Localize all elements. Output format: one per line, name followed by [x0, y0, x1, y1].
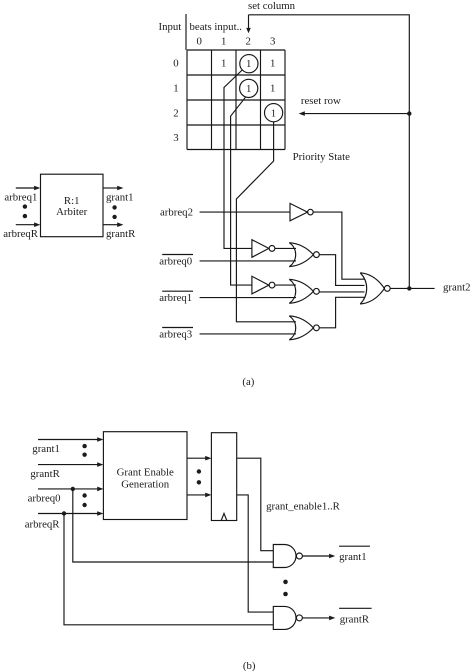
- svg-text:1: 1: [270, 82, 275, 94]
- svg-text:3: 3: [173, 132, 178, 144]
- svg-text:2: 2: [245, 35, 250, 47]
- svg-text:0: 0: [173, 58, 178, 70]
- wire: grant1 out of arbiter: [103, 187, 118, 189]
- dots: between grant1 and grantR: [82, 444, 86, 448]
- circle around cell (2,3): [265, 104, 283, 122]
- wire: grant2 output: [390, 287, 434, 289]
- wire: from circle (1,2) down to inverter U3: [231, 97, 252, 285]
- svg-text:1: 1: [173, 83, 178, 95]
- wire: U2 output into NOR U4: [275, 247, 296, 249]
- svg-text:set column: set column: [248, 0, 296, 12]
- svg-text:1: 1: [270, 57, 275, 69]
- wire: U6 output to 4-input NOR: [319, 297, 364, 328]
- svg-text:reset row: reset row: [301, 95, 341, 107]
- wire: U5 output to 4-input NOR: [319, 291, 364, 293]
- wire: arbreq0 to NOR U4: [200, 260, 296, 262]
- junction: grant2 to feedback: [407, 286, 411, 290]
- svg-text:1: 1: [246, 58, 251, 70]
- register block: [211, 433, 236, 521]
- wire: from circle (0,2) down to inverter U2: [224, 70, 252, 248]
- wire: arbreq0 feedback to NAND U8: [73, 489, 273, 562]
- svg-text:arbreq0: arbreq0: [159, 256, 192, 268]
- NAND gate U8 (grant1): [273, 545, 302, 568]
- inverter U2 (matrix bit into U4): [252, 240, 269, 258]
- NOR gate U6 (arbreq3 row): [289, 316, 319, 340]
- svg-text:grantR: grantR: [106, 228, 136, 240]
- wire: U4 output to 4-input NOR: [319, 255, 364, 286]
- svg-text:1: 1: [221, 35, 226, 47]
- svg-text:Input: Input: [159, 21, 182, 33]
- wire: register to NAND U9: [237, 495, 274, 612]
- wire: U8 output arrow: [302, 555, 330, 557]
- wire: arbreq2 to inverter U1: [200, 211, 290, 213]
- svg-text:grant1: grant1: [32, 443, 60, 455]
- wire: header separator line: [185, 14, 187, 50]
- dots: between NAND gates: [283, 580, 288, 585]
- dots: between arbreq0 and arbreqR: [82, 493, 86, 497]
- svg-text:0: 0: [196, 35, 201, 47]
- wire: arbreqR into arbiter: [16, 224, 35, 226]
- 4-input NOR gate U7 (grant2): [360, 273, 390, 304]
- svg-text:(a): (a): [242, 376, 254, 388]
- wire: arbreq0 into grant enable generation: [38, 488, 98, 490]
- wire: U9 output arrow: [302, 617, 330, 619]
- wire: GEG to register (top): [187, 457, 206, 459]
- matrix cell values 1: [221, 57, 276, 119]
- junction: reset row on feedback vertical: [407, 111, 411, 115]
- svg-text:grant_enable1..R: grant_enable1..R: [266, 501, 341, 513]
- wire: set column arrow into column 2: [248, 15, 250, 29]
- svg-text:3: 3: [270, 35, 275, 47]
- matrix grid: priority state matrix: [187, 50, 285, 150]
- svg-text:1: 1: [221, 57, 226, 69]
- wire: U3 output into NOR U5: [275, 284, 296, 286]
- svg-text:arbreq0: arbreq0: [28, 493, 61, 505]
- svg-text:2: 2: [173, 108, 178, 120]
- svg-text:1: 1: [246, 83, 251, 95]
- svg-text:Generation: Generation: [121, 478, 170, 490]
- wire: arbreq3 to NOR U6: [200, 333, 296, 335]
- R:1 arbiter block: [41, 174, 104, 237]
- wire: arbreq1 into arbiter: [16, 187, 35, 189]
- svg-text:grant1: grant1: [106, 192, 134, 204]
- inverter U1 (arbreq2): [290, 203, 308, 220]
- svg-text:1: 1: [271, 107, 276, 119]
- wire: register to NAND U8: [237, 458, 274, 551]
- svg-text:arbreq1: arbreq1: [159, 292, 192, 304]
- svg-text:grantR: grantR: [340, 613, 370, 625]
- wire: set column feedback (top horizontal + right vertical from grant2): [249, 15, 410, 289]
- svg-text:arbreqR: arbreqR: [25, 519, 61, 531]
- wire: U1 output to 4-input NOR: [313, 212, 364, 279]
- circle around cell (0,2): [240, 55, 258, 73]
- svg-text:arbreq3: arbreq3: [159, 329, 192, 341]
- svg-text:grantR: grantR: [30, 468, 60, 480]
- svg-text:beats input..: beats input..: [190, 21, 242, 33]
- wire: grant1 into grant enable generation: [38, 439, 98, 441]
- svg-text:arbreq2: arbreq2: [160, 207, 193, 219]
- svg-text:Priority State: Priority State: [293, 151, 350, 163]
- wire: grantR out of arbiter: [103, 224, 118, 226]
- wire: GEG to register (bottom): [187, 494, 206, 496]
- dots: between GEG outputs: [197, 469, 201, 473]
- junction: arbreq0 feedback tap: [71, 487, 75, 491]
- svg-text:arbreqR: arbreqR: [3, 228, 39, 240]
- block: Grant Enable Generation: [103, 432, 187, 520]
- dots: arbiter inputs ellipsis: [23, 204, 27, 208]
- wire: reset row arrow from feedback line to matrix: [303, 113, 409, 115]
- svg-text:Grant Enable: Grant Enable: [117, 466, 174, 478]
- wire: arbreqR feedback to NAND U9: [64, 514, 273, 625]
- svg-text:grant1: grant1: [339, 551, 367, 563]
- svg-text:Arbiter: Arbiter: [56, 206, 88, 218]
- svg-text:(b): (b): [243, 660, 256, 671]
- NAND gate U9 (grantR): [273, 606, 302, 629]
- junction: arbreqR feedback tap: [62, 511, 66, 515]
- svg-text:grant2: grant2: [443, 282, 471, 294]
- wire: from circle (2,3) down to NOR gate U6: [236, 122, 296, 322]
- dots: arbiter outputs ellipsis: [112, 205, 116, 209]
- circle around cell (1,2): [240, 79, 258, 97]
- NOR gate U5 (arbreq1 row): [289, 279, 319, 303]
- wire: grantR into grant enable generation: [38, 464, 98, 466]
- NOR gate U4 (arbreq0 row): [289, 243, 319, 267]
- svg-text:arbreq1: arbreq1: [4, 192, 37, 204]
- matrix column headers 0 1 2 3: [196, 35, 275, 47]
- matrix row labels 0 1 2 3: [173, 58, 178, 145]
- clock wedge on register: [221, 513, 227, 520]
- wire: arbreqR into grant enable generation: [38, 513, 98, 515]
- inverter U3 (matrix bit into U5): [252, 276, 269, 294]
- wire: arbreq1 to NOR U5: [200, 297, 296, 299]
